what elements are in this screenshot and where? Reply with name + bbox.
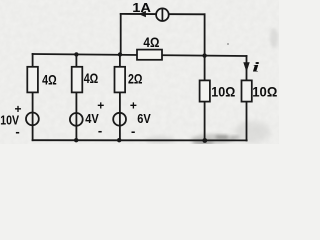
wire branch R5 (204, 56, 206, 141)
current source I1 1A (156, 8, 169, 21)
svg-text:-: - (15, 124, 19, 139)
resistor R1 4ohm (27, 67, 38, 93)
wire branch R6 (246, 56, 248, 140)
arrow 1A current direction (139, 11, 146, 17)
svg-text:4Ω: 4Ω (84, 70, 99, 86)
node A top bus at V2 (74, 52, 78, 56)
wire branch V2 (75, 54, 77, 140)
svg-text:2Ω: 2Ω (128, 71, 143, 87)
voltage source V2 4V (70, 113, 83, 126)
voltage source V3 6V (113, 113, 126, 126)
svg-text:4Ω: 4Ω (143, 34, 159, 50)
wire top loop right vertical (204, 14, 206, 55)
resistor R3 2ohm (115, 67, 126, 93)
node F bottom bus at R5 (202, 138, 207, 143)
svg-text:1A: 1A (132, 0, 151, 15)
svg-text:i: i (252, 61, 259, 76)
arrow current i (243, 62, 249, 72)
wire top bus (33, 54, 247, 56)
svg-text:10Ω: 10Ω (211, 84, 235, 100)
node E bottom bus at V3 (117, 138, 121, 142)
svg-text:-: - (131, 123, 135, 138)
svg-text:+: + (97, 98, 104, 112)
resistor R4 4ohm horizontal (137, 50, 162, 60)
svg-text:10Ω: 10Ω (252, 84, 277, 100)
svg-text:6V: 6V (137, 111, 151, 126)
resistor R5 10ohm (200, 80, 210, 101)
node C top bus at R5 (202, 53, 206, 57)
wire top loop left vertical (120, 14, 122, 55)
svg-text:+: + (130, 99, 137, 113)
wire branch V1 (32, 54, 34, 140)
node D bottom bus at V2 (74, 138, 78, 142)
wire bottom bus (33, 139, 247, 141)
voltage source V1 10V (26, 113, 39, 126)
node B top bus at V3 (118, 52, 122, 56)
svg-text:-: - (98, 123, 102, 138)
resistor R6 10ohm (242, 80, 252, 101)
wire branch V3 (119, 55, 121, 141)
svg-text:4Ω: 4Ω (42, 72, 57, 88)
wire top loop horizontal (121, 13, 205, 15)
resistor R2 4ohm (72, 67, 83, 93)
